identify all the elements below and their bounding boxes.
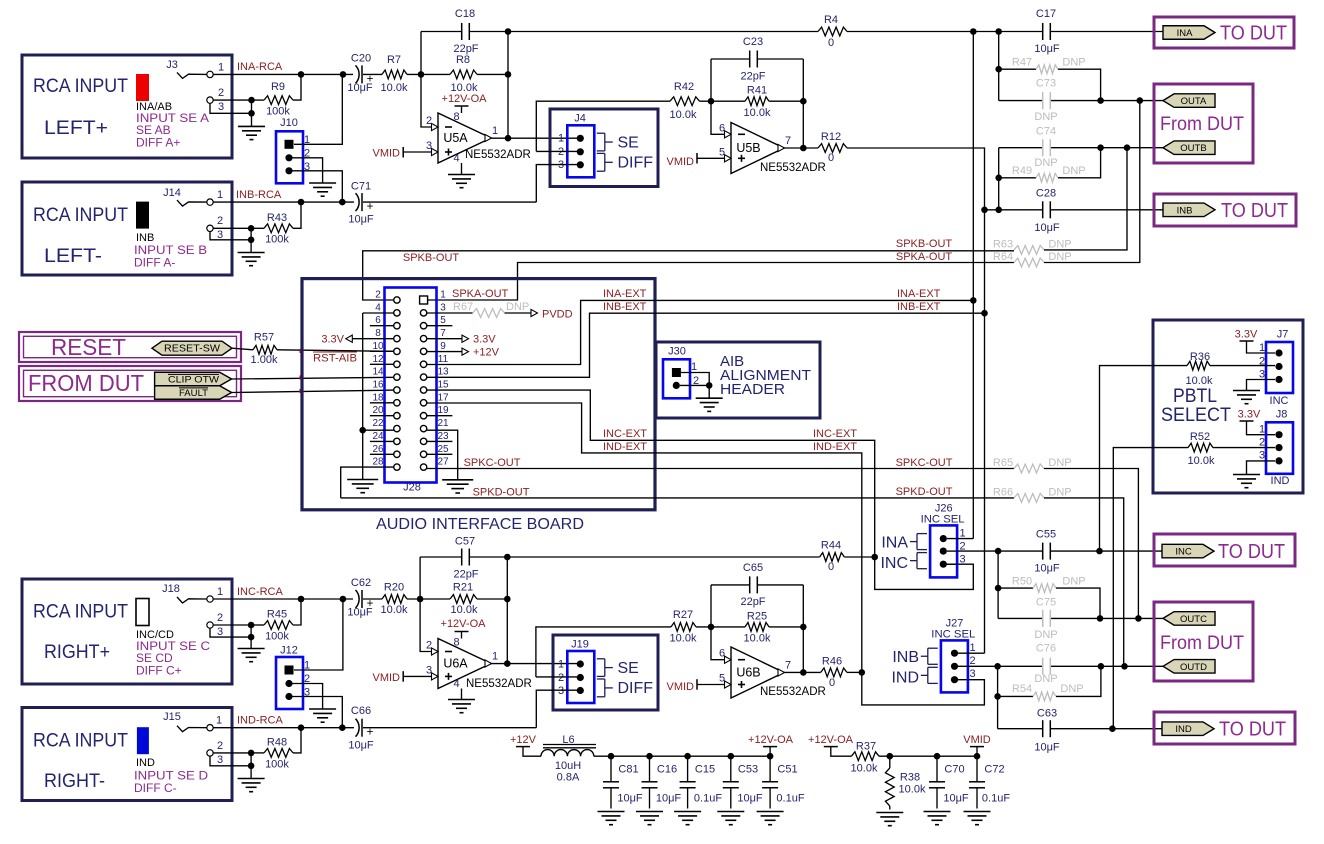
svg-text:R8: R8 — [456, 54, 470, 66]
ground at C16 — [636, 811, 663, 813]
capacitor C66 10uF — [356, 719, 360, 737]
svg-text:From DUT: From DUT — [1160, 114, 1244, 135]
svg-text:2: 2 — [426, 115, 432, 127]
svg-text:C55: C55 — [1036, 529, 1056, 541]
wire J4 pin3 to C71 line — [536, 165, 582, 203]
wire R37 to divider node — [879, 755, 977, 757]
svg-text:SPKC-OUT: SPKC-OUT — [464, 457, 521, 469]
vertical rail R50/C75 — [997, 551, 999, 618]
capacitor C57 22pF — [420, 556, 461, 558]
svg-text:2: 2 — [1259, 437, 1265, 449]
wire net OUTA — [999, 100, 1042, 102]
capacitor C17 10uF — [1042, 23, 1044, 40]
box TO DUT INC — [1154, 534, 1295, 566]
svg-text:3: 3 — [1259, 369, 1265, 381]
svg-text:RCA INPUT: RCA INPUT — [33, 731, 128, 752]
ground at J8 — [1233, 474, 1260, 476]
wire net IND-EXT — [427, 403, 985, 705]
svg-text:DNP: DNP — [1060, 683, 1083, 695]
svg-text:20: 20 — [372, 405, 384, 416]
capacitor C53 10uF — [730, 756, 732, 782]
wire J7 pin3 to ground — [1247, 380, 1276, 391]
box PBTL SELECT — [1153, 320, 1303, 493]
svg-text:C62: C62 — [351, 577, 371, 589]
svg-text:TO DUT: TO DUT — [1220, 23, 1287, 45]
box From DUT top — [1154, 84, 1253, 163]
svg-text:J28: J28 — [403, 482, 421, 494]
svg-text:10.0k: 10.0k — [744, 633, 771, 645]
svg-text:SE: SE — [618, 135, 639, 152]
svg-text:DIFF A+: DIFF A+ — [136, 136, 180, 150]
wire J19 pin3 to C66 line — [536, 690, 582, 728]
svg-text:R4: R4 — [824, 14, 838, 26]
wire R8 out to C18 node — [477, 73, 508, 75]
svg-text:SE: SE — [618, 660, 639, 677]
svg-text:INB: INB — [892, 649, 919, 666]
svg-text:1: 1 — [492, 651, 498, 663]
svg-text:RCA INPUT: RCA INPUT — [33, 205, 128, 226]
svg-text:3: 3 — [218, 101, 224, 113]
wire J8 pin3 to ground — [1247, 461, 1276, 475]
svg-text:RESET: RESET — [51, 334, 126, 360]
svg-text:SPKB-OUT: SPKB-OUT — [403, 252, 460, 264]
svg-text:3: 3 — [217, 626, 223, 638]
svg-text:R67: R67 — [453, 301, 473, 313]
svg-text:R49: R49 — [1012, 165, 1032, 177]
svg-text:3.3V: 3.3V — [473, 334, 496, 346]
svg-text:5: 5 — [719, 146, 725, 158]
svg-text:4: 4 — [453, 153, 459, 165]
svg-text:INC SEL: INC SEL — [931, 629, 975, 641]
svg-text:C75: C75 — [1036, 597, 1056, 609]
svg-text:J3: J3 — [166, 59, 178, 71]
ground at J12 — [309, 708, 336, 710]
svg-text:0.8A: 0.8A — [557, 772, 580, 784]
ground at R48 — [238, 778, 265, 780]
svg-text:R7: R7 — [387, 54, 401, 66]
svg-text:4: 4 — [375, 302, 381, 313]
wire R12 output to C28 and INB-EXT — [847, 148, 985, 653]
svg-text:8: 8 — [375, 328, 381, 339]
svg-text:10μF: 10μF — [1034, 222, 1060, 234]
wire net INC main line to R44 — [507, 556, 819, 558]
wire CLIP_OTW to J28 pin14 — [232, 377, 394, 379]
svg-text:1: 1 — [492, 125, 498, 137]
svg-text:RIGHT-: RIGHT- — [44, 771, 105, 792]
svg-text:C15: C15 — [695, 764, 715, 776]
svg-text:INA-EXT: INA-EXT — [897, 288, 941, 300]
op-amp U5B NE5532ADR — [731, 123, 784, 174]
vertical rail R47/C73 — [998, 32, 1000, 101]
vertical rail INA-EXT — [972, 32, 974, 539]
svg-text:RCA INPUT: RCA INPUT — [33, 602, 128, 623]
svg-text:RIGHT+: RIGHT+ — [44, 642, 110, 663]
op-amp U5A NE5532ADR — [438, 113, 491, 163]
svg-text:J4: J4 — [574, 113, 586, 125]
svg-text:J19: J19 — [571, 639, 589, 651]
box J4 SE/DIFF select — [550, 109, 658, 187]
svg-text:1: 1 — [216, 715, 222, 727]
svg-text:C72: C72 — [984, 764, 1004, 776]
wire +12V-OA rail — [594, 755, 770, 757]
svg-text:RESET-SW: RESET-SW — [164, 344, 221, 355]
svg-text:0.1uF: 0.1uF — [982, 793, 1010, 805]
wire R27-R25 node — [696, 626, 745, 628]
wire R42-R41 node — [700, 100, 746, 102]
svg-text:R20: R20 — [384, 582, 404, 594]
svg-text:J12: J12 — [280, 645, 298, 657]
ground at J28 left — [347, 479, 378, 481]
svg-text:SELECT: SELECT — [1161, 405, 1231, 426]
resistor R43 100k — [264, 224, 293, 233]
svg-text:R43: R43 — [267, 212, 287, 224]
svg-text:R57: R57 — [254, 332, 274, 344]
svg-text:LEFT-: LEFT- — [44, 246, 102, 267]
tag INC — [1162, 544, 1214, 558]
svg-text:10.0k: 10.0k — [381, 604, 408, 616]
box From DUT bottom — [1154, 602, 1253, 681]
svg-text:C16: C16 — [657, 764, 677, 776]
svg-text:1.00k: 1.00k — [251, 354, 278, 366]
svg-text:10.0k: 10.0k — [1188, 455, 1215, 467]
svg-text:C63: C63 — [1037, 708, 1057, 720]
tag INB — [1163, 203, 1215, 217]
svg-text:DNP: DNP — [1062, 576, 1085, 588]
svg-text:DNP: DNP — [1034, 629, 1057, 641]
svg-text:10μF: 10μF — [737, 793, 763, 805]
capacitor C23 22pF — [711, 58, 749, 60]
resistor R57 1.00k — [253, 345, 277, 354]
svg-text:R52: R52 — [1190, 431, 1210, 443]
svg-text:10: 10 — [372, 341, 384, 352]
svg-text:INC: INC — [1270, 395, 1289, 407]
wire net INA-RCA — [213, 73, 353, 75]
svg-text:NE5532ADR: NE5532ADR — [465, 149, 531, 161]
svg-text:INA: INA — [1177, 28, 1194, 39]
svg-text:DNP: DNP — [506, 301, 529, 313]
svg-text:C81: C81 — [618, 764, 638, 776]
resistor R42 10.0k — [670, 97, 700, 106]
ground at R9 — [238, 125, 265, 127]
svg-text:100k: 100k — [265, 759, 289, 771]
svg-text:DNP: DNP — [1048, 457, 1071, 469]
svg-text:2: 2 — [217, 215, 223, 227]
svg-text:10μF: 10μF — [347, 82, 373, 94]
svg-text:R48: R48 — [267, 737, 287, 749]
svg-text:NE5532ADR: NE5532ADR — [760, 162, 826, 174]
svg-text:C70: C70 — [944, 764, 964, 776]
box FROM DUT — [19, 366, 241, 401]
wire J10 pin2 to ground — [292, 158, 323, 183]
svg-text:28: 28 — [372, 457, 384, 468]
wire net IND-RCA — [213, 727, 354, 729]
svg-text:2: 2 — [558, 672, 564, 684]
wire J26 pin3 stub — [947, 563, 958, 565]
capacitor C20 10uF — [356, 65, 360, 83]
svg-text:2: 2 — [217, 740, 223, 752]
svg-text:1: 1 — [959, 528, 965, 540]
svg-text:J8: J8 — [1276, 409, 1288, 421]
svg-text:DIFF A-: DIFF A- — [134, 256, 175, 270]
tag OUTD — [1163, 660, 1215, 674]
svg-text:3.3V: 3.3V — [1238, 409, 1261, 421]
wire net SPKD-OUT — [341, 497, 1014, 499]
resistor R21 10.0k — [450, 595, 477, 604]
ground at C53 — [717, 811, 744, 813]
resistor R38 10.0k — [889, 756, 891, 768]
svg-text:J30: J30 — [668, 346, 686, 358]
capacitor C15 0.1uF — [687, 756, 689, 782]
svg-text:4: 4 — [453, 678, 459, 690]
svg-text:INB-EXT: INB-EXT — [603, 301, 647, 313]
svg-text:NE5532ADR: NE5532ADR — [466, 678, 532, 690]
vertical rail R54/C63 — [997, 666, 999, 728]
svg-text:+12V-OA: +12V-OA — [808, 734, 854, 746]
capacitor C76 DNP — [1042, 658, 1044, 675]
svg-text:R41: R41 — [747, 85, 767, 97]
wire net INB-EXT — [427, 313, 985, 377]
svg-text:DIFF: DIFF — [618, 680, 654, 697]
svg-text:OUTD: OUTD — [1180, 662, 1207, 673]
resistor R64 DNP — [1014, 258, 1044, 267]
svg-text:C53: C53 — [738, 764, 758, 776]
svg-text:DIFF C-: DIFF C- — [134, 781, 177, 795]
svg-text:7: 7 — [440, 328, 446, 339]
resistor R37 10.0k — [851, 752, 879, 761]
svg-text:25: 25 — [437, 444, 449, 455]
svg-text:From DUT: From DUT — [1160, 633, 1244, 654]
svg-text:TO DUT: TO DUT — [1218, 541, 1285, 563]
svg-text:10.0k: 10.0k — [381, 82, 408, 94]
svg-text:DIFF: DIFF — [618, 155, 654, 172]
wire RESET to J28 pin10 — [232, 348, 253, 350]
svg-text:C18: C18 — [455, 8, 475, 20]
svg-text:R47: R47 — [1012, 57, 1032, 69]
svg-text:INC-RCA: INC-RCA — [237, 586, 283, 598]
svg-text:R38: R38 — [900, 772, 920, 784]
resistor R7 10.0k — [382, 70, 407, 79]
svg-text:NE5532ADR: NE5532ADR — [760, 686, 826, 698]
wire J28 pin7 3.3V arrow — [427, 338, 462, 340]
svg-text:1: 1 — [691, 361, 697, 373]
svg-text:J10: J10 — [280, 117, 298, 129]
capacitor C62 10uF — [356, 590, 360, 608]
svg-text:10μF: 10μF — [1034, 563, 1060, 575]
svg-text:2: 2 — [969, 655, 975, 667]
capacitor C70 10uF — [936, 756, 938, 782]
svg-text:2: 2 — [217, 612, 223, 624]
wire net INC to DUT (C55 line) — [958, 550, 1042, 552]
capacitor C16 10uF — [649, 756, 651, 782]
svg-text:R36: R36 — [1190, 351, 1210, 363]
wire J12 pin1 to INC node — [294, 599, 343, 670]
resistor R27 10.0k — [671, 623, 696, 632]
svg-text:3: 3 — [217, 754, 223, 766]
svg-text:10.0k: 10.0k — [670, 109, 697, 121]
RCA jack J3 (red) — [136, 74, 149, 101]
resistor R12 0 — [818, 144, 847, 153]
svg-text:INB-RCA: INB-RCA — [236, 189, 282, 201]
svg-text:8: 8 — [453, 111, 459, 123]
svg-text:IND: IND — [891, 670, 919, 687]
box RCA INPUT RIGHT+ — [22, 579, 232, 684]
svg-text:INC-EXT: INC-EXT — [603, 428, 647, 440]
svg-text:1: 1 — [969, 642, 975, 654]
svg-text:+12V-OA: +12V-OA — [442, 93, 488, 105]
svg-text:10μF: 10μF — [656, 793, 682, 805]
svg-text:+: + — [367, 201, 374, 213]
wire net INB-RCA — [213, 201, 354, 203]
wire net R27 line — [536, 627, 671, 677]
wire J4 pin2 to R42 line — [536, 150, 582, 152]
svg-text:C73: C73 — [1036, 78, 1056, 90]
svg-text:PVDD: PVDD — [542, 309, 573, 321]
wire U5B output / R12 to INB-EXT rail — [784, 147, 818, 149]
svg-text:10.0k: 10.0k — [851, 763, 878, 775]
svg-text:16: 16 — [372, 380, 384, 391]
box TO DUT INB — [1154, 194, 1296, 226]
resistor R50 DNP — [998, 587, 1033, 589]
svg-text:23: 23 — [437, 431, 449, 442]
svg-text:6: 6 — [719, 122, 725, 134]
resistor R25 10.0k — [745, 623, 769, 632]
svg-text:10.0k: 10.0k — [451, 604, 478, 616]
svg-text:9: 9 — [440, 341, 446, 352]
tag OUTC — [1163, 612, 1215, 626]
svg-text:15: 15 — [437, 380, 449, 391]
resistor R52 10.0k — [1113, 448, 1188, 729]
svg-text:19: 19 — [437, 405, 449, 416]
svg-text:100k: 100k — [266, 106, 290, 118]
wire net INC-RCA — [213, 598, 353, 600]
svg-text:21: 21 — [437, 418, 449, 429]
wire J28 pin3 R67 DNP to PVDD — [427, 312, 473, 314]
svg-text:R50: R50 — [1012, 576, 1032, 588]
svg-text:3: 3 — [440, 302, 446, 313]
svg-text:10uH: 10uH — [555, 760, 581, 772]
svg-text:U5A: U5A — [443, 131, 468, 145]
svg-text:R66: R66 — [993, 486, 1013, 498]
svg-text:VMID: VMID — [667, 156, 695, 168]
capacitor C51 0.1uF — [769, 756, 771, 782]
ground at C70 — [924, 811, 951, 813]
svg-text:R45: R45 — [267, 609, 287, 621]
svg-text:TO DUT: TO DUT — [1219, 719, 1286, 741]
svg-text:R65: R65 — [993, 457, 1013, 469]
svg-text:R64: R64 — [993, 251, 1013, 263]
svg-text:C28: C28 — [1036, 188, 1056, 200]
svg-text:VMID: VMID — [373, 148, 401, 160]
box AUDIO INTERFACE BOARD — [302, 279, 655, 510]
svg-text:R46: R46 — [822, 656, 842, 668]
svg-text:+12V: +12V — [473, 347, 500, 359]
op-amp U6A NE5532ADR — [438, 639, 491, 689]
box RCA INPUT LEFT- — [22, 182, 232, 275]
bracket DIFF (J4) — [597, 152, 605, 154]
bracket IND (J27) — [928, 666, 938, 668]
svg-text:0: 0 — [828, 152, 834, 164]
svg-text:+: + — [367, 727, 374, 739]
svg-text:1: 1 — [218, 62, 224, 74]
svg-text:14: 14 — [372, 367, 384, 378]
svg-text:INA-EXT: INA-EXT — [603, 288, 647, 300]
svg-text:CLIP OTW: CLIP OTW — [168, 375, 219, 386]
capacitor C28 10uF — [1042, 201, 1044, 218]
wire J4 pin1 from U5A — [578, 137, 582, 139]
svg-text:C76: C76 — [1036, 643, 1056, 655]
svg-text:100k: 100k — [265, 631, 289, 643]
svg-text:INC-EXT: INC-EXT — [813, 428, 857, 440]
svg-text:R44: R44 — [821, 540, 841, 552]
svg-text:FAULT: FAULT — [179, 388, 208, 399]
svg-text:INA: INA — [881, 535, 908, 552]
RCA jack J14 (black) — [136, 202, 149, 229]
resistor R46 0 — [821, 668, 847, 677]
svg-text:11: 11 — [438, 354, 449, 365]
capacitor C73 DNP — [1042, 92, 1044, 109]
svg-text:26: 26 — [372, 444, 384, 455]
svg-text:DNP: DNP — [1062, 165, 1085, 177]
wire J28 pin27 SPKC-OUT — [427, 468, 1014, 470]
svg-text:J18: J18 — [162, 583, 180, 595]
wire FAULT to J28 pin16 — [232, 390, 394, 392]
wire J10 pin1 to INA node — [294, 74, 342, 144]
svg-text:1: 1 — [440, 290, 446, 301]
svg-text:22pF: 22pF — [453, 43, 478, 55]
svg-text:0.1uF: 0.1uF — [694, 793, 722, 805]
svg-text:3.3V: 3.3V — [321, 334, 344, 346]
svg-text:OUTB: OUTB — [1180, 143, 1206, 154]
svg-text:INC: INC — [1175, 547, 1192, 558]
svg-text:DNP: DNP — [1062, 57, 1085, 69]
svg-text:R54: R54 — [1012, 683, 1032, 695]
svg-text:C17: C17 — [1036, 8, 1056, 20]
wire J28 pin28 to SPKD-OUT — [341, 467, 394, 498]
svg-text:10.0k: 10.0k — [744, 107, 771, 119]
svg-text:10μF: 10μF — [348, 214, 374, 226]
svg-text:INC: INC — [880, 555, 908, 572]
wire J28 pin21 to ground — [427, 430, 458, 480]
capacitor C71 10uF — [356, 193, 360, 211]
ground at J30 — [696, 397, 723, 399]
svg-text:VMID: VMID — [667, 681, 695, 693]
svg-text:C23: C23 — [743, 36, 763, 48]
svg-text:3: 3 — [558, 685, 564, 697]
resistor R54 DNP — [998, 695, 1033, 697]
resistor R20 10.0k — [382, 595, 407, 604]
svg-text:VMID: VMID — [373, 672, 401, 684]
svg-text:R37: R37 — [856, 741, 876, 753]
svg-text:10μF: 10μF — [617, 793, 643, 805]
resistor R36 10.0k — [1100, 366, 1188, 551]
svg-text:C66: C66 — [351, 705, 371, 717]
svg-text:SPKB-OUT: SPKB-OUT — [896, 238, 953, 250]
wire R20-R21 node — [407, 598, 450, 600]
svg-text:C65: C65 — [743, 562, 763, 574]
capacitor C72 0.1uF — [976, 756, 978, 782]
svg-text:22pF: 22pF — [740, 596, 765, 608]
wire net OUTB — [999, 147, 1042, 149]
resistor R63 DNP — [1014, 246, 1044, 255]
resistor R66 DNP — [1014, 494, 1044, 503]
resistor R48 100k — [264, 749, 293, 758]
wire J30 pins to ground — [681, 373, 709, 399]
svg-text:RST-AIB: RST-AIB — [313, 353, 357, 365]
svg-text:DNP: DNP — [1034, 111, 1057, 123]
svg-text:DNP: DNP — [1034, 673, 1057, 685]
svg-text:1: 1 — [558, 659, 564, 671]
svg-text:3.3V: 3.3V — [1235, 329, 1258, 341]
